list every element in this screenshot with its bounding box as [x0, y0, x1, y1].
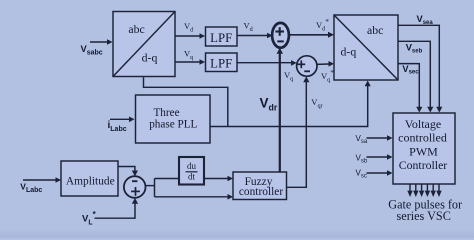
svg-text:d-q: d-q — [142, 50, 158, 64]
LPF1 box — [206, 27, 238, 46]
svg-text:dt: dt — [188, 172, 196, 182]
S3 plus sign — [131, 187, 140, 196]
S2 plus sign — [297, 60, 305, 68]
wire v_sabc input — [90, 39, 113, 45]
wire LPF1 to summing junction S1 — [237, 33, 273, 39]
S2 minus sign — [304, 70, 310, 72]
wire to du/dt — [155, 178, 180, 180]
wire v_sc input — [367, 170, 393, 176]
svg-text:controlled: controlled — [398, 130, 447, 144]
wire Vqr fuzzy to S2 — [287, 76, 310, 187]
fuzzy controller box — [233, 172, 287, 200]
svg-text:phase PLL: phase PLL — [149, 119, 197, 131]
svg-text:controller: controller — [239, 186, 283, 198]
wire Vseb — [398, 41, 433, 112]
wire V_L* reference input — [95, 198, 139, 218]
block d-q/abc (U2) — [334, 15, 398, 80]
wire i_Labc input — [110, 117, 135, 123]
svg-text:Amplitude: Amplitude — [66, 175, 115, 187]
wire Vsec — [398, 64, 422, 113]
block abc/d-q (U1) — [113, 12, 175, 77]
summing junction S2 — [297, 56, 317, 76]
du/dt fraction bar — [186, 171, 198, 173]
bottom shading strip — [0, 228, 474, 238]
svg-text:abc: abc — [367, 23, 383, 37]
amplitude box — [61, 161, 118, 196]
gate pulse arrows — [407, 184, 441, 197]
S1 minus sign — [277, 40, 284, 42]
wire LPF2 to summing junction S2 — [237, 60, 297, 66]
wire v_Labc input — [23, 177, 61, 183]
three phase PLL box — [136, 95, 211, 143]
wire v_sb input — [367, 154, 393, 160]
du/dt box — [179, 157, 204, 185]
wire amplitude to S3 — [118, 167, 138, 177]
S3 minus sign — [132, 180, 137, 182]
svg-text:PWM: PWM — [409, 144, 438, 158]
svg-text:LPF: LPF — [210, 57, 232, 71]
wire Vd block1 to LPF1 — [175, 33, 205, 39]
wire v_sa input — [367, 135, 393, 141]
svg-text:d-q: d-q — [341, 44, 357, 58]
wire error to fuzzy lower input — [155, 194, 234, 200]
LPF2 box — [206, 53, 238, 72]
wire Vsea — [398, 25, 442, 112]
voltage controlled PWM controller box — [393, 113, 455, 184]
svg-text:series VSC: series VSC — [397, 209, 451, 223]
wire theta branch to block1 — [144, 77, 228, 126]
wire Vq block1 to LPF2 — [175, 59, 205, 65]
wire PLL theta to block2 — [210, 81, 371, 127]
svg-text:abc: abc — [128, 22, 144, 36]
svg-text:LPF: LPF — [210, 31, 232, 45]
svg-text:Voltage: Voltage — [405, 117, 441, 131]
wire Vq* S2 to block2 — [317, 61, 334, 67]
summing junction S3 — [124, 176, 146, 198]
wire S3 output split node — [145, 179, 154, 197]
wire Vdr fuzzy to S1 — [277, 48, 283, 172]
svg-text:Controller: Controller — [399, 158, 448, 172]
wire du/dt to fuzzy upper input — [204, 176, 233, 182]
summing junction S1 — [272, 23, 289, 48]
svg-text:Three: Three — [153, 107, 179, 119]
svg-text:du: du — [187, 161, 197, 171]
S1 plus sign — [275, 27, 284, 36]
wire Vd* S1 to block2 — [290, 32, 334, 38]
